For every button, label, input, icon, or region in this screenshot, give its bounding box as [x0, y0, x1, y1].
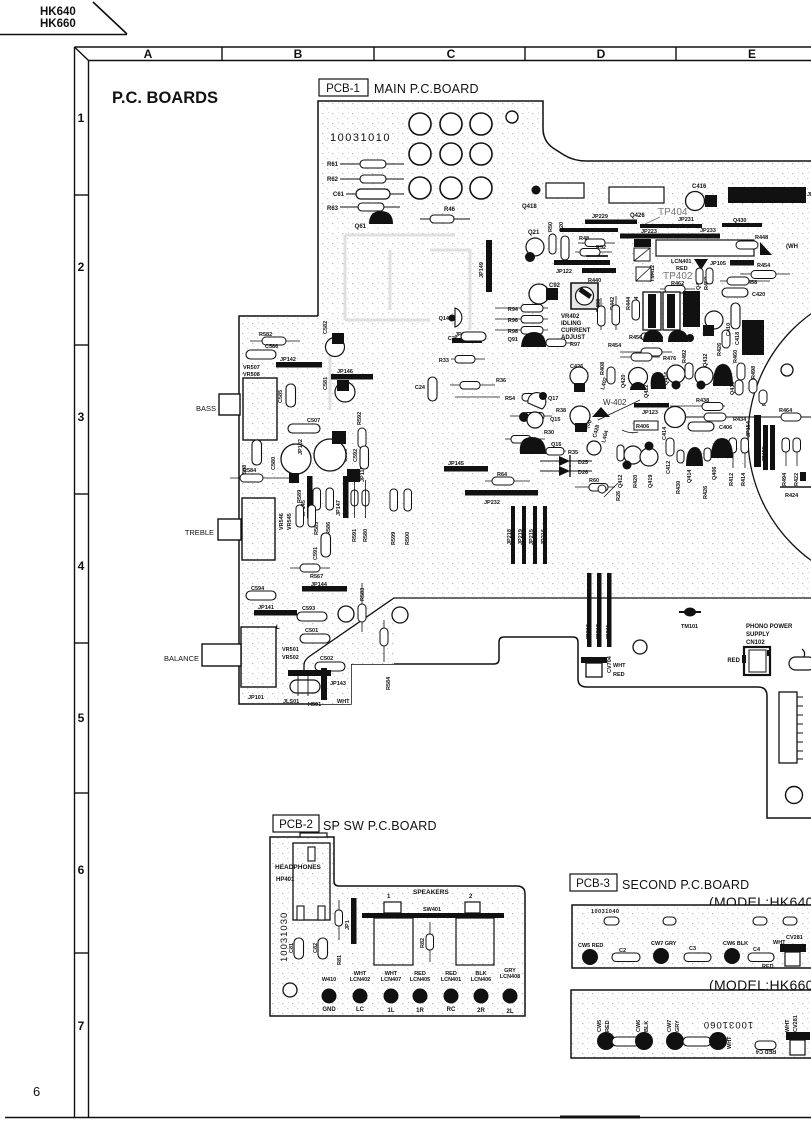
terminal CW6 BLK (660) [635, 1020, 653, 1050]
transistor Q61 [355, 211, 393, 230]
svg-text:Q412: Q412 [618, 475, 624, 488]
diode D25 [540, 455, 592, 467]
resistor R454b [608, 343, 672, 356]
svg-text:SP SW P.C.BOARD: SP SW P.C.BOARD [323, 819, 437, 833]
svg-text:HEADPHONES: HEADPHONES [275, 864, 322, 871]
svg-text:RC: RC [447, 1007, 456, 1013]
mounting hole grid 3x3 [409, 113, 492, 199]
pot labels VR507 VR508 [243, 365, 260, 378]
svg-text:GRY: GRY [675, 1020, 681, 1032]
svg-text:E: E [748, 47, 756, 61]
resistor group R589 R581 [296, 490, 316, 527]
resistor R35 [540, 448, 578, 457]
coil L402 [600, 368, 617, 390]
solder blob JP115 [347, 466, 366, 482]
jumper JP145 [444, 461, 488, 472]
capacitor C580 [271, 444, 311, 474]
transistor Q91 [508, 332, 546, 347]
svg-text:C585: C585 [278, 390, 284, 403]
VR402 adjust note [561, 314, 591, 341]
svg-text:R412: R412 [729, 473, 735, 486]
resistor R456 pill [641, 333, 661, 340]
resistor R96 [495, 316, 548, 325]
jumper JP123 [634, 403, 669, 416]
svg-text:R426: R426 [703, 486, 709, 499]
svg-text:R430: R430 [676, 481, 682, 494]
svg-text:2: 2 [78, 260, 85, 274]
svg-text:JP122: JP122 [556, 269, 572, 275]
svg-text:C593: C593 [302, 606, 315, 612]
svg-text:JP147: JP147 [336, 500, 342, 516]
svg-text:R581: R581 [309, 490, 315, 503]
transistor Q414 blob [686, 447, 703, 483]
resistor R438 [670, 398, 725, 411]
transistor Q420 [621, 368, 648, 391]
transistor Q15 [519, 406, 590, 432]
svg-text:R589: R589 [297, 490, 303, 503]
pad oval c [753, 917, 767, 925]
resistor R592 [357, 412, 366, 448]
capacitor C426 [570, 364, 588, 392]
svg-text:LC: LC [356, 1007, 365, 1013]
resistor R408 [600, 362, 615, 384]
svg-text:JP149: JP149 [479, 262, 485, 278]
transistor Q440 [703, 311, 723, 336]
svg-text:10031040: 10031040 [591, 909, 619, 915]
capacitor C81 [289, 938, 304, 959]
hole in pad [781, 364, 793, 376]
svg-text:R30: R30 [544, 430, 554, 436]
connector CN102 [727, 647, 771, 675]
resistor R448 [736, 235, 768, 249]
svg-text:R580: R580 [363, 529, 369, 542]
terminal CW6 BLK [723, 941, 748, 964]
svg-text:VR507: VR507 [243, 365, 260, 371]
svg-text:VR402: VR402 [561, 314, 580, 320]
model header HK640/HK660 [0, 2, 127, 35]
hole right [392, 607, 408, 623]
resistor R476 [620, 353, 676, 362]
transistor Q432 [695, 354, 713, 390]
transistor Q422 blob [644, 372, 666, 398]
jumper JLS01 [290, 676, 320, 696]
svg-text:R97: R97 [570, 342, 580, 348]
resistor R60 [575, 478, 615, 491]
svg-text:C580: C580 [271, 457, 277, 470]
svg-text:IDLING: IDLING [561, 321, 582, 327]
svg-text:C414: C414 [662, 426, 668, 440]
svg-text:VR545: VR545 [287, 513, 293, 530]
svg-text:SPEAKERS: SPEAKERS [413, 889, 449, 896]
svg-text:C592: C592 [353, 449, 359, 462]
pot labels VR546 VR545 [279, 513, 293, 530]
svg-text:WHT: WHT [337, 699, 350, 705]
svg-text:LCN401: LCN401 [441, 977, 461, 983]
capacitor C585 [278, 384, 296, 407]
svg-text:C418: C418 [735, 332, 741, 345]
jumper block JP218 JP219 JP215 JP216 [507, 506, 547, 564]
svg-text:JP123: JP123 [642, 410, 658, 416]
jumper bar top right [728, 187, 811, 203]
TREBLE connector [185, 519, 241, 540]
svg-text:6: 6 [33, 1084, 40, 1099]
svg-text:JP102: JP102 [298, 439, 304, 455]
svg-text:R63: R63 [327, 206, 339, 212]
PCB-2 board outline [270, 837, 525, 1016]
svg-text:BLK: BLK [644, 1021, 650, 1032]
svg-text:R454: R454 [608, 343, 622, 349]
jumper JP232 [465, 490, 538, 506]
svg-text:C581: C581 [323, 377, 329, 390]
solder blobs row [643, 330, 694, 342]
resistor R430b [676, 450, 684, 494]
svg-text:1R: 1R [416, 1008, 424, 1014]
jumper JP142 [276, 357, 322, 368]
svg-text:R414: R414 [741, 472, 747, 486]
resistor R582 [250, 332, 300, 345]
svg-text:R456: R456 [629, 335, 642, 341]
solder pad square [289, 473, 299, 483]
resistor R424 [780, 472, 811, 499]
jumper JP229 [585, 214, 637, 224]
PCB-1 top board edge [318, 101, 811, 316]
resistor R81 [335, 900, 343, 965]
capacitor C416 [686, 184, 718, 211]
jumper JP233 [700, 228, 716, 234]
svg-text:R599: R599 [391, 532, 397, 545]
resistor R412 [729, 438, 737, 486]
labels JP101 JLS01 H501 WHT [248, 695, 350, 708]
svg-text:R82: R82 [420, 938, 426, 948]
resistor R62 [327, 175, 404, 183]
jumper JP147 [336, 476, 349, 518]
transistor Q16 blob [520, 437, 562, 454]
resistors R450 Q424 pills [696, 268, 713, 284]
svg-text:C416: C416 [692, 184, 707, 190]
capacitor C501 [276, 625, 330, 643]
svg-text:R36: R36 [496, 378, 506, 384]
svg-text:JP231: JP231 [678, 217, 694, 223]
svg-text:JP219: JP219 [518, 529, 524, 545]
svg-text:C507: C507 [307, 418, 320, 424]
diode D26 [540, 465, 592, 477]
transistor Q406 blob [711, 438, 733, 480]
capacitor C586 [246, 344, 278, 359]
resistor R416 [759, 390, 768, 406]
TREBLE pot body [242, 498, 275, 560]
resistor R30 [505, 430, 554, 443]
svg-text:JP154: JP154 [746, 420, 752, 437]
svg-text:4: 4 [78, 559, 85, 573]
jumper JP143 [321, 668, 346, 700]
capacitor C4 (660) [755, 1041, 776, 1054]
terminal LCN407 1L [381, 971, 401, 1014]
IC outline [609, 187, 664, 203]
svg-text:C582: C582 [323, 321, 329, 334]
svg-text:R426: R426 [717, 343, 723, 356]
resistor R583 [358, 583, 366, 632]
svg-text:C591: C591 [313, 547, 319, 560]
resistor R460 [733, 350, 745, 380]
terminal CW7 GRY [651, 941, 677, 964]
svg-text:R584: R584 [243, 468, 257, 474]
svg-text:R444: R444 [626, 296, 632, 310]
grid column letters [144, 47, 756, 61]
resistor R426b [703, 448, 711, 499]
connector CV281 [773, 935, 806, 966]
svg-text:R424: R424 [785, 493, 799, 499]
svg-text:C26: C26 [448, 336, 458, 342]
PCB-3 label [570, 874, 749, 892]
svg-text:PCB-1: PCB-1 [326, 83, 360, 95]
svg-text:R33: R33 [439, 358, 449, 364]
terminal CW5 RED [578, 943, 603, 965]
resistor R464 [760, 408, 811, 421]
capacitor C422 [731, 303, 740, 329]
svg-text:R492: R492 [682, 350, 688, 363]
transistor C414 [662, 407, 686, 441]
jumper Q430 [722, 218, 762, 227]
label HEADPHONES [275, 864, 322, 883]
BALANCE connector [164, 644, 241, 666]
headphone jack HP401 [293, 843, 330, 920]
svg-text:CW6 BLK: CW6 BLK [723, 941, 748, 947]
svg-text:HK660: HK660 [40, 18, 76, 30]
svg-text:C: C [447, 47, 456, 61]
svg-text:C406: C406 [719, 425, 732, 431]
capacitor C418 block [735, 320, 764, 355]
svg-text:GND: GND [322, 1007, 336, 1013]
speckle lower-left board region [318, 598, 394, 704]
PCB-1 label [319, 79, 479, 96]
resistor R82 [420, 922, 434, 962]
resistor R36 [450, 378, 506, 389]
pad oval b [663, 917, 676, 925]
jumper JP223 [560, 228, 720, 239]
resistor R494 [782, 438, 790, 486]
svg-text:CW5 RED: CW5 RED [578, 943, 603, 949]
svg-text:H501: H501 [308, 702, 321, 708]
svg-text:P.C. BOARDS: P.C. BOARDS [112, 89, 218, 107]
svg-text:R584: R584 [386, 676, 392, 690]
resistor R434 [686, 413, 758, 423]
capacitor C502 [315, 656, 345, 671]
capacitor C4 [748, 947, 774, 970]
trimmer VR402 [571, 283, 598, 309]
wire LCN401 RED [671, 259, 708, 272]
svg-text:JP1: JP1 [345, 920, 351, 930]
svg-text:JP211: JP211 [606, 624, 612, 640]
resistor R54 [455, 394, 542, 403]
svg-text:SUPPLY: SUPPLY [746, 632, 769, 638]
svg-text:Q418: Q418 [522, 204, 537, 210]
svg-text:HK640: HK640 [40, 6, 76, 18]
svg-text:R422: R422 [794, 473, 800, 486]
ferrite W-402 [592, 398, 640, 420]
svg-text:C4: C4 [753, 947, 761, 953]
svg-text:C586: C586 [265, 344, 278, 350]
svg-text:D: D [597, 47, 606, 61]
hole left [338, 606, 354, 622]
svg-text:A: A [144, 47, 153, 61]
svg-text:C420: C420 [752, 292, 765, 298]
capacitor C420 [722, 288, 765, 298]
svg-text:W-402: W-402 [603, 398, 627, 407]
connector pad right [789, 657, 811, 670]
thermistor TM101 [679, 608, 701, 631]
jumper JP162 [301, 476, 313, 518]
svg-text:PHONO POWER: PHONO POWER [746, 624, 793, 630]
capacitor C406 [688, 422, 732, 431]
jumper JP105 [710, 260, 754, 267]
svg-text:10031060: 10031060 [703, 1019, 753, 1030]
svg-text:R448: R448 [755, 235, 768, 241]
svg-text:W410: W410 [322, 977, 336, 983]
resistor R406 box [622, 421, 658, 433]
PCB-1 left and bottom board edge [239, 316, 811, 818]
svg-text:5: 5 [78, 711, 85, 725]
svg-text:LCN401: LCN401 [671, 259, 691, 265]
resistor R98 [495, 327, 548, 336]
grid row numbers [78, 111, 85, 1033]
svg-text:VR501: VR501 [282, 647, 299, 653]
svg-text:(WH: (WH [786, 244, 798, 250]
resistor R64 [485, 472, 530, 485]
svg-text:VR508: VR508 [243, 372, 260, 378]
svg-text:HP401: HP401 [276, 877, 295, 883]
svg-text:R408: R408 [600, 362, 606, 375]
terminal LCN405 1R [410, 971, 430, 1014]
resistor R63 [327, 203, 400, 212]
connector CV704 [581, 655, 626, 678]
svg-text:R460: R460 [733, 350, 739, 363]
svg-text:Q61: Q61 [355, 224, 367, 230]
jumper bar near JP143 [288, 670, 331, 676]
jumper JP155 [762, 425, 768, 470]
capacitor C412 [666, 438, 674, 474]
capacitor C26 [448, 332, 486, 342]
transistor Q418 [522, 183, 584, 210]
svg-text:R476: R476 [663, 356, 676, 362]
jumper JP149 [479, 240, 492, 292]
PCB-3 HK640 board outline [572, 905, 811, 968]
hole [587, 441, 601, 455]
resistor R97 [540, 339, 580, 348]
resistor R456 [629, 335, 642, 341]
svg-text:BASS: BASS [196, 404, 216, 413]
board interior speckle texture [239, 101, 811, 704]
svg-text:1L: 1L [387, 1008, 394, 1014]
PCB-3 HK660 board outline [571, 990, 811, 1058]
svg-text:C412: C412 [666, 461, 672, 474]
svg-text:PCB-3: PCB-3 [576, 878, 610, 890]
svg-text:WHT: WHT [785, 1019, 791, 1032]
BASS connector [196, 394, 240, 415]
svg-text:R500: R500 [405, 532, 411, 545]
svg-text:Q414: Q414 [687, 469, 693, 483]
arrow marker [760, 242, 772, 255]
svg-text:B: B [294, 47, 303, 61]
jumper JP156 [770, 425, 775, 470]
terminal LCN401 RC [441, 971, 461, 1013]
svg-text:C3: C3 [689, 946, 696, 952]
component R446 [634, 239, 651, 261]
svg-text:JP216: JP216 [541, 529, 547, 545]
svg-text:R406: R406 [636, 424, 649, 430]
jumper block JP210 JP213 JP211 [586, 573, 612, 647]
svg-text:LCN402: LCN402 [350, 977, 370, 983]
transistor Q14 [439, 308, 462, 327]
heatsink black block [683, 291, 700, 327]
jumper JP154 [746, 415, 761, 467]
svg-text:10031010: 10031010 [330, 132, 391, 144]
transistor Q21 [525, 230, 544, 262]
capacitor C589 [314, 431, 349, 471]
resistor R61 [327, 160, 404, 168]
svg-text:Q17: Q17 [548, 396, 558, 402]
svg-text:Q420: Q420 [621, 375, 627, 388]
capacitor C20 [559, 222, 569, 260]
svg-text:2L: 2L [506, 1009, 513, 1015]
resistor R420 [617, 445, 639, 488]
svg-text:R591: R591 [352, 529, 358, 542]
svg-text:LCN405: LCN405 [410, 977, 430, 983]
svg-text:Q432: Q432 [703, 354, 709, 367]
terminal LCN408 2L [500, 968, 520, 1015]
svg-text:RED C4: RED C4 [755, 1048, 776, 1054]
resistor R94 [495, 305, 548, 314]
svg-text:7: 7 [78, 1019, 85, 1033]
svg-text:R62: R62 [327, 177, 339, 183]
pot labels VR501 VR502 [282, 647, 299, 661]
svg-text:JP143: JP143 [330, 681, 346, 687]
resistor R422 [793, 438, 801, 486]
capacitor C593 [297, 606, 327, 621]
resistor R584a [230, 468, 292, 482]
svg-text:3: 3 [78, 410, 85, 424]
jumper JP144 [302, 582, 347, 592]
svg-text:R61: R61 [327, 162, 339, 168]
svg-text:RED: RED [762, 964, 774, 970]
label PHONO POWER SUPPLY CN102 [746, 624, 793, 646]
capacitor C2 (660) [612, 1037, 640, 1046]
svg-text:MAIN P.C.BOARD: MAIN P.C.BOARD [374, 82, 479, 96]
svg-text:R592: R592 [357, 412, 363, 425]
svg-text:LCN406: LCN406 [471, 977, 491, 983]
capacitor C592 [353, 446, 369, 469]
svg-text:Q91: Q91 [508, 337, 518, 343]
capacitor C24 [415, 377, 437, 401]
terminal W410 GND [322, 977, 337, 1013]
terminal LCN402 LC [350, 971, 370, 1013]
resistor R492 [682, 350, 693, 379]
svg-text:CV281: CV281 [786, 935, 803, 941]
jumper JP159 [452, 332, 482, 343]
capacitor C507 [288, 418, 320, 433]
svg-text:JLS01: JLS01 [283, 699, 299, 705]
wire J stub [802, 649, 805, 657]
svg-text:Q422: Q422 [644, 385, 650, 398]
svg-text:CW6: CW6 [636, 1020, 642, 1032]
svg-text:PCB-2: PCB-2 [279, 819, 313, 831]
BALANCE pot body [241, 627, 276, 687]
svg-text:WHT: WHT [727, 1036, 733, 1049]
capacitor C3 (660) [683, 1037, 711, 1046]
svg-text:CN102: CN102 [746, 640, 765, 646]
terminal CW8 WHT (660) [709, 1032, 733, 1050]
svg-text:SECOND P.C.BOARD: SECOND P.C.BOARD [622, 878, 749, 892]
resistor R462 [660, 281, 695, 293]
